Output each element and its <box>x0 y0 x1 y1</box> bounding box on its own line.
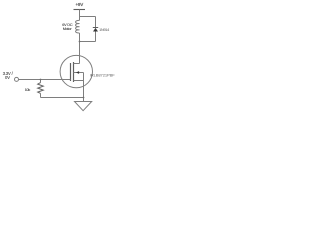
resistor R1 zigzag <box>38 83 44 94</box>
svg-text:0V: 0V <box>5 75 10 80</box>
transistor Q1 channel bar <box>73 62 75 82</box>
wire: gate horizontal <box>19 79 71 81</box>
ground symbol triangle <box>75 102 92 111</box>
power +9V rail bar <box>74 9 86 11</box>
junction dot motor/diode <box>79 41 81 43</box>
resistor R1 bottom lead <box>40 93 42 97</box>
transistor Q1 gate bar <box>70 63 72 81</box>
svg-text:Motor: Motor <box>63 27 73 31</box>
motor M1 coil <box>76 20 80 33</box>
wire: diode cathode up <box>95 17 97 28</box>
svg-text:1N914: 1N914 <box>99 28 109 32</box>
resistor R1 top lead <box>40 80 42 83</box>
input terminal circle <box>15 77 19 81</box>
svg-text:IRLB8721PBF: IRLB8721PBF <box>90 72 116 77</box>
diode D1 cathode bar <box>93 27 98 29</box>
wire: drain vertical <box>79 42 81 64</box>
transistor Q1 body-source vertical <box>83 73 85 81</box>
transistor Q1 drain connector <box>74 63 80 65</box>
wire: motor bottom to diode bottom <box>80 41 96 43</box>
wire: motor bottom lead <box>79 33 81 42</box>
wire: source down to ground <box>83 81 85 102</box>
diode D1 anode triangle <box>93 28 98 32</box>
wire: +9V down to motor top <box>79 10 81 21</box>
background <box>0 0 120 112</box>
junction dot source/return <box>83 97 85 99</box>
wire: top rail to diode <box>80 16 96 18</box>
transistor Q1 source connector <box>74 80 84 82</box>
wire: bottom return <box>41 97 84 99</box>
svg-text:10k: 10k <box>25 88 31 92</box>
wire: diode anode down <box>95 32 97 42</box>
transistor Q1 body arrow <box>76 71 79 74</box>
svg-text:+9V: +9V <box>76 2 84 7</box>
transistor Q1 body connector <box>74 72 84 74</box>
junction dot resistor/gate <box>40 79 42 81</box>
transistor Q1 envelope circle <box>60 55 92 87</box>
